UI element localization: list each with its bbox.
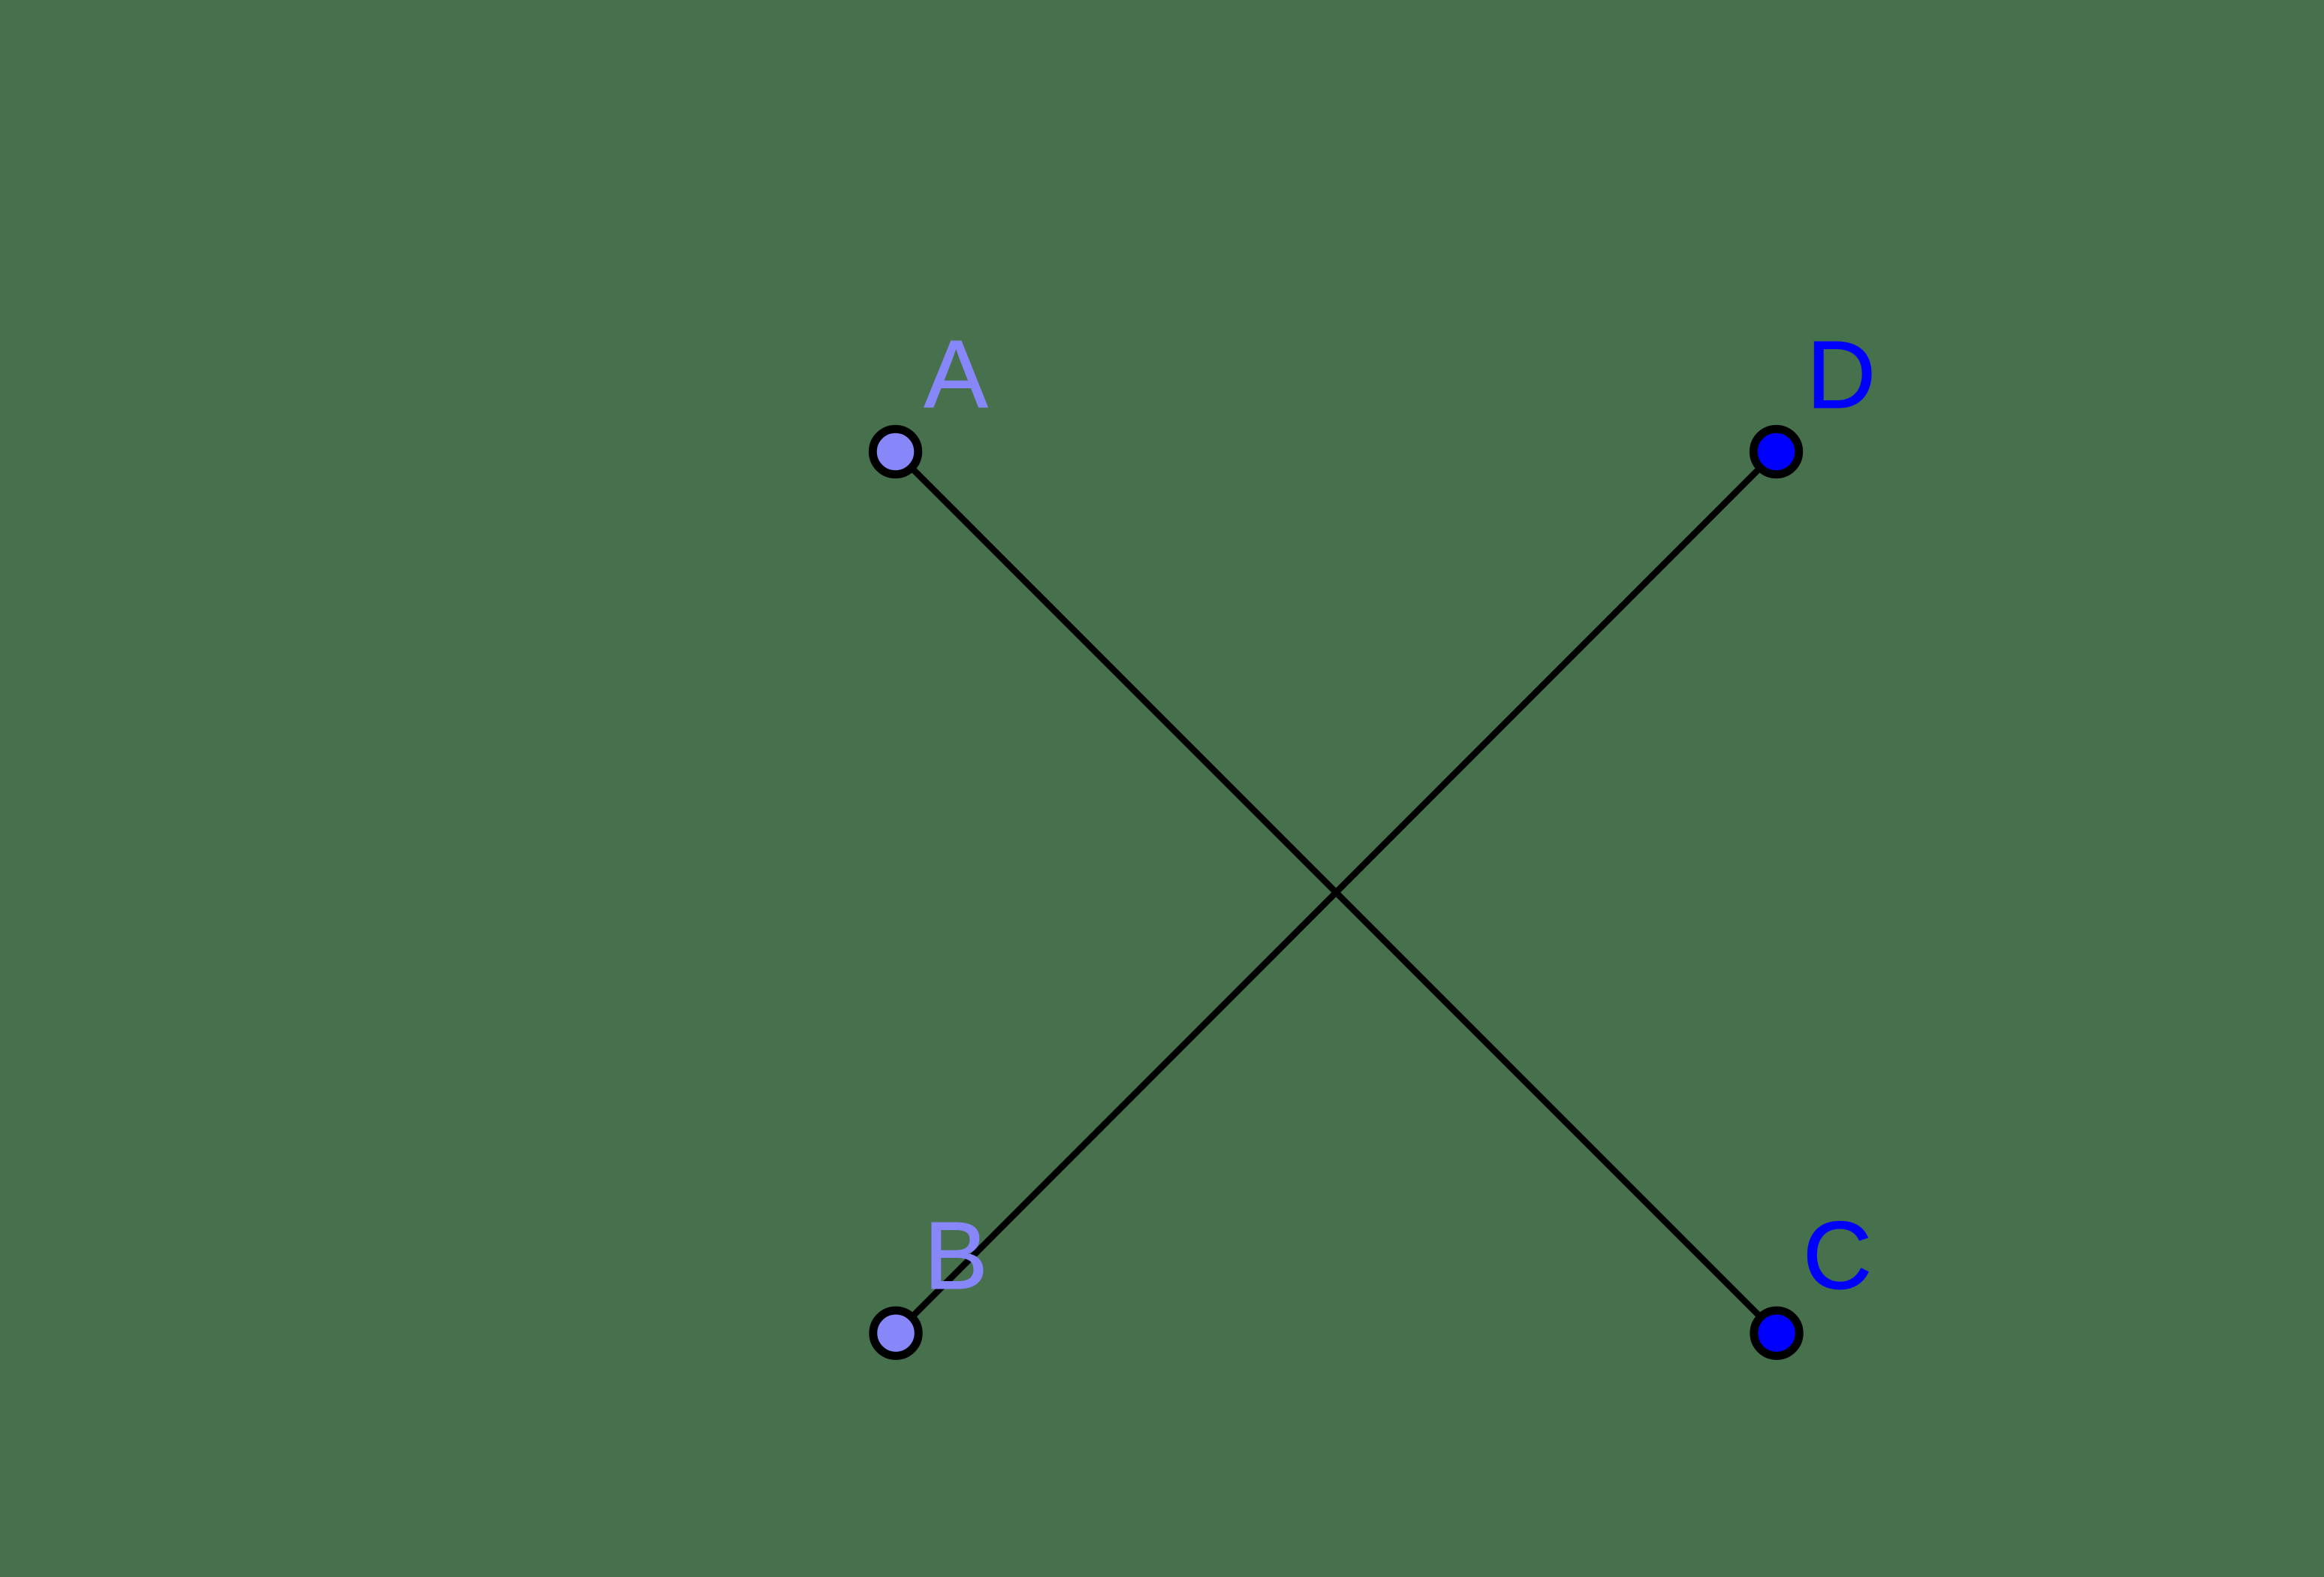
point B	[873, 1310, 918, 1355]
svg-text:B: B	[924, 1202, 987, 1310]
segment BD	[896, 452, 1777, 1334]
svg-text:A: A	[924, 321, 988, 429]
segment AC	[896, 452, 1777, 1334]
point A	[873, 429, 918, 474]
point C	[1754, 1310, 1799, 1355]
svg-text:C: C	[1803, 1202, 1872, 1310]
svg-text:D: D	[1807, 321, 1876, 429]
point D	[1753, 429, 1798, 474]
